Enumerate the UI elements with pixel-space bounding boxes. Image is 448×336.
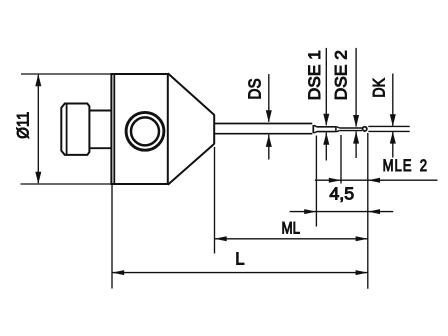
svg-text:4,5: 4,5 — [329, 184, 354, 204]
dimension line MLE (step1 to tip) — [290, 209, 394, 214]
Ø11 extension lines — [21, 74, 112, 184]
DS dimension line upper — [266, 74, 272, 159]
svg-text:Ø11: Ø11 — [14, 112, 32, 139]
svg-text:DS: DS — [245, 78, 264, 99]
neck / thread relief — [89, 111, 111, 149]
extension line step1 — [315, 136, 317, 227]
dimension line ML — [215, 236, 368, 241]
extension line cone face / ML — [214, 147, 216, 254]
svg-text:DSE 2: DSE 2 — [331, 50, 351, 100]
step 1 face + chamfer — [313, 125, 317, 133]
extension line body left / L — [111, 185, 113, 289]
section DSE 2 — [340, 128, 362, 131]
step 2 face + chamfer — [336, 126, 340, 132]
section DSE 1 — [317, 127, 336, 132]
extension line 4,5 left — [340, 135, 342, 184]
Ø11 dimension line — [35, 74, 41, 184]
extension line ball tip — [367, 133, 369, 289]
DK tangent extension lines — [368, 126, 409, 131]
svg-text:DSE 1: DSE 1 — [304, 50, 324, 100]
DSE 1 dimension line — [323, 48, 329, 161]
svg-text:MLE 2: MLE 2 — [383, 156, 428, 175]
thread cap M3 — [61, 104, 89, 155]
svg-text:DK: DK — [371, 77, 389, 97]
shaft DS — [214, 124, 312, 134]
dimension line L — [112, 270, 368, 275]
svg-text:ML: ML — [282, 219, 301, 238]
DK dimension line — [390, 74, 396, 158]
adapter body — [111, 74, 167, 184]
svg-text:L: L — [235, 248, 244, 269]
cone — [168, 73, 214, 185]
dimension line 4,5 / MLE 2 — [315, 178, 438, 183]
DSE 2 dimension line — [353, 48, 359, 158]
ball tip DK — [363, 127, 367, 131]
clamping hole ring — [126, 112, 164, 150]
